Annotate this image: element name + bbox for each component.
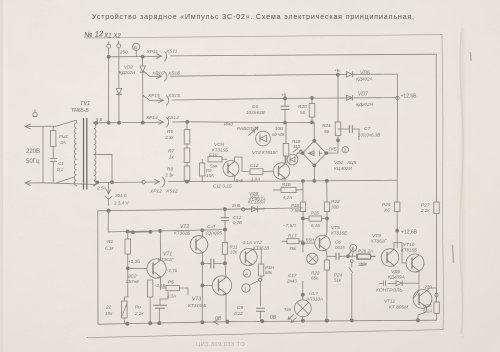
resistor R9 <box>200 159 205 182</box>
svg-text:ЦИ3.369.033 ТО: ЦИ3.369.033 ТО <box>196 342 245 348</box>
wire x260 node down to C9 <box>259 281 261 306</box>
wire x352 from circled Б <box>352 251 353 257</box>
label R3 <box>155 283 166 288</box>
capacitor C3 <box>202 259 225 268</box>
svg-text:0,7Б: 0,7Б <box>233 220 242 225</box>
label C9 0,22 <box>234 305 243 316</box>
resistor R11 <box>222 230 227 264</box>
wire primary top <box>75 120 77 122</box>
wire C4 top hook <box>160 292 168 299</box>
transistor VT3 <box>240 248 257 265</box>
svg-text:68к: 68к <box>265 270 273 275</box>
base wire VT1 <box>128 267 147 269</box>
capacitor C6 <box>281 98 289 122</box>
svg-text:(Q(н)05: (Q(н)05 <box>206 231 222 236</box>
label 0В left <box>215 316 222 322</box>
circled node Б <box>133 43 140 51</box>
label VD6 КД402А <box>356 71 373 82</box>
svg-text:55Н: 55Н <box>306 238 314 243</box>
rail2 wire to node +Б <box>171 74 338 76</box>
rail4 wire <box>173 121 313 124</box>
label R8 3,3к <box>165 167 174 178</box>
capacitor C9 <box>257 308 265 321</box>
svg-text:0015: 0015 <box>335 245 345 250</box>
svg-text:С12: С12 <box>250 163 259 168</box>
label -2,7В <box>167 268 178 273</box>
label C17 <box>286 273 297 284</box>
svg-text:Ри: Ри <box>135 305 141 311</box>
label XP16 XS16 <box>151 71 180 77</box>
connector mark at VD8 left <box>379 281 386 286</box>
junction dot R2 top <box>126 267 129 270</box>
svg-text:-2,1Б: -2,1Б <box>155 283 166 288</box>
svg-text:ХS14: ХS14 <box>166 115 179 121</box>
label 250 <box>120 50 128 55</box>
label VD5 КЦ405А <box>334 160 357 172</box>
resistor R8 <box>184 163 190 182</box>
svg-text:КТ815Г: КТ815Г <box>262 150 278 155</box>
svg-text:Р26: Р26 <box>311 211 319 216</box>
svg-text:VТ11: VТ11 <box>384 299 395 305</box>
label R24b <box>334 273 343 283</box>
svg-text:С.Л: С.Л <box>207 224 216 230</box>
svg-text:С1: С1 <box>58 161 64 166</box>
svg-text:2,2к: 2,2к <box>420 208 430 213</box>
label C1 <box>57 161 64 172</box>
connector pair XP15/XS15 arrow <box>143 95 169 105</box>
svg-text:С11 0,1Б: С11 0,1Б <box>213 184 232 189</box>
switch SA1 upper contact <box>56 121 75 127</box>
svg-text:3,3к: 3,3к <box>165 135 174 140</box>
label VD8 КД409А <box>388 269 405 280</box>
svg-text:15к: 15к <box>105 311 113 316</box>
resistor R3 <box>148 280 153 323</box>
junction dots C3 row <box>201 262 227 265</box>
label C7 100,0х6,3В <box>358 126 380 138</box>
resistor R14 <box>259 258 264 280</box>
svg-text:R17: R17 <box>288 234 297 239</box>
label 234V <box>114 201 129 206</box>
resistor R24 <box>324 256 329 270</box>
wire VD6 corner down to +12.6 node <box>396 74 398 98</box>
label 204В <box>115 193 127 198</box>
svg-text:КТ361Г: КТ361Г <box>371 239 387 244</box>
svg-text:1,0А: 1,0А <box>251 177 260 182</box>
svg-text:250: 250 <box>120 50 128 55</box>
svg-text:5,2А: 5,2А <box>423 309 432 314</box>
crease dark dash upper <box>470 52 473 61</box>
svg-text:КД409А: КД409А <box>388 275 405 280</box>
label +2,3В <box>128 259 140 264</box>
resistor R23 horizontal <box>348 254 376 259</box>
wire mains bottom to transformer <box>43 183 94 185</box>
label R19 110 <box>292 139 301 149</box>
junction dot R8 bottom on mid bus <box>186 180 189 183</box>
svg-text:Инд.: Инд. <box>224 122 234 128</box>
label VT3 КТ361В <box>241 240 269 251</box>
wire x144 vertical to VD2 and down <box>142 57 144 123</box>
svg-text:VD7: VD7 <box>358 92 368 98</box>
wire X2 down to diode VD1 <box>118 48 120 88</box>
label R23 33к <box>358 249 373 267</box>
junction dot X1 node <box>107 55 110 58</box>
label 0В right <box>270 315 277 321</box>
connector pair XP16/XS16 arrow <box>143 71 167 81</box>
label XP15 XS15 <box>147 93 180 99</box>
svg-text:ХS12: ХS12 <box>165 189 178 195</box>
connector switch mark x352 <box>349 260 353 321</box>
transformer core <box>84 119 87 190</box>
wire VT3 emitter to R14 <box>252 249 261 258</box>
transistor VT7 <box>381 249 399 267</box>
mains arrow upper prong <box>25 124 56 129</box>
svg-text:+12,6В: +12,6В <box>401 230 418 236</box>
label +8В <box>281 93 287 98</box>
label R10 value <box>210 164 218 169</box>
wire secondary bottom to XP12 row <box>94 182 143 185</box>
label C2 <box>125 274 139 285</box>
small box row above VT1 <box>126 230 152 233</box>
label Инд. РАБОТА <box>224 122 256 133</box>
transformer primary winding <box>74 121 76 186</box>
bottom bus wire <box>98 320 437 324</box>
label VT2 <box>174 224 190 236</box>
wire VT5 collector x327 down <box>303 219 327 237</box>
junction dot secondary bottom <box>96 181 99 184</box>
label VT6 КТ817 <box>252 150 278 156</box>
svg-text:ХР15: ХР15 <box>147 93 160 99</box>
bridge rectifier VD5 diamond <box>303 141 327 166</box>
label VT5 КТ315Е <box>331 225 348 236</box>
resistor R21 <box>335 75 341 141</box>
node dot +Б <box>336 73 339 76</box>
svg-text:6,4Б: 6,4Б <box>311 223 320 228</box>
label R16 <box>291 203 300 213</box>
svg-text:0,1: 0,1 <box>57 167 64 172</box>
zener diode VD3 on y209 wire <box>245 207 264 212</box>
junction dots on y123 line <box>95 121 145 124</box>
resistor R25 <box>395 202 400 212</box>
svg-text:+Б: +Б <box>334 68 340 73</box>
wire VT10 emitter down to VT11 base <box>410 271 419 299</box>
sheet frame bottom (faint) <box>87 330 443 338</box>
label +5,6В <box>236 178 244 183</box>
resistor R7 <box>184 144 190 163</box>
capacitor C10 label <box>209 152 218 157</box>
inner block top wire y210 <box>98 208 303 211</box>
label +12,6В lower <box>401 230 418 236</box>
svg-text:VD2: VD2 <box>124 65 133 70</box>
svg-text:6,8: 6,8 <box>96 117 103 122</box>
svg-text:0,22: 0,22 <box>234 311 243 316</box>
wire bridge top up <box>313 122 315 140</box>
circled 4 test point <box>243 270 251 278</box>
base wire VT3b <box>202 263 212 322</box>
LED HL2 arrows <box>294 148 303 154</box>
mid bus wire y182 to right <box>169 180 398 181</box>
label R27 2,2к <box>420 203 430 214</box>
label C11 0,15 <box>213 184 232 189</box>
label +7,5В <box>282 223 296 229</box>
circled 2 test point <box>342 147 348 153</box>
label XP11 XS11 <box>146 49 178 56</box>
label КИПД24 <box>272 132 286 137</box>
terminal X2 <box>117 41 121 48</box>
transformer secondary winding <box>94 122 96 186</box>
label КОНТРОЛЬ <box>376 288 403 294</box>
junction dot VT5 base <box>302 242 305 245</box>
wire bridge left to HL2 <box>297 152 303 154</box>
chassis Y symbol <box>105 196 112 206</box>
label FU1 3А <box>59 134 68 146</box>
svg-text:3А: 3А <box>60 140 66 146</box>
wire x397 down from +12,6 node <box>396 98 398 248</box>
test lamp circle waveform point <box>307 253 318 264</box>
svg-text:Н29: Н29 <box>423 303 432 308</box>
wire X1 down to node <box>108 48 110 123</box>
wire bridge bottom to mid bus <box>313 165 315 181</box>
svg-text:72н: 72н <box>284 307 292 312</box>
resistor R6 <box>184 122 190 144</box>
LED HL1 arrows <box>249 127 259 136</box>
diode VD1 <box>116 89 121 95</box>
svg-text:-220: -220 <box>423 285 432 290</box>
svg-text:ХР12: ХР12 <box>149 189 162 195</box>
component R10 box <box>208 157 227 162</box>
junction dot R20 top on rail3 <box>311 96 314 99</box>
LED HL3 arrows <box>288 315 296 323</box>
svg-text:–7,5Л: –7,5Л <box>282 223 296 229</box>
svg-text:VD2 . КЦ5: VD2 . КЦ5 <box>334 160 357 166</box>
END-LEFT <box>165 75 380 184</box>
resistor R27 <box>434 202 439 214</box>
capacitor C13 on x225 <box>222 209 229 229</box>
label XP12 XS12 <box>149 189 178 195</box>
junction dot x397 at +12,6В branch <box>396 229 399 232</box>
svg-text:Р28 2А: Р28 2А <box>358 249 373 254</box>
svg-text:10,0г63В: 10,0г63В <box>246 110 265 115</box>
svg-text:ХS15: ХS15 <box>167 93 180 99</box>
label HL3 АЛ310А <box>305 291 323 302</box>
svg-text:Р5: Р5 <box>168 280 174 285</box>
base wire VT5 <box>303 236 315 252</box>
label +Б <box>334 68 340 73</box>
label VT3 КТ315Б <box>188 297 206 310</box>
label VD2 КД202Н <box>119 65 136 76</box>
wire secondary top to connector row <box>94 121 146 124</box>
resistor R20 <box>309 98 315 123</box>
svg-text:VТ3: VТ3 <box>192 297 201 303</box>
wire VT7 collector to VT8 base <box>394 243 406 264</box>
junction dot +8 node <box>284 97 287 100</box>
svg-text:ТV1: ТV1 <box>80 101 90 107</box>
END-MID2 <box>108 194 343 322</box>
svg-text:5ч6: 5ч6 <box>236 178 244 183</box>
right rail wire vertical <box>435 54 437 320</box>
fuse FU1 <box>51 126 56 152</box>
transistor VT1 <box>147 231 166 290</box>
VT11 emitter node open circle on rail <box>427 288 439 302</box>
END-MID1 <box>200 98 440 272</box>
label C13 <box>233 215 242 225</box>
wire x327 vertical <box>326 181 328 219</box>
label C5 0,05 <box>206 224 222 236</box>
node dot +10В <box>337 139 340 142</box>
junction dots y230 <box>126 228 227 233</box>
diode VD2 <box>140 66 145 72</box>
label R25 56 <box>382 202 391 213</box>
svg-text:КД202Н: КД202Н <box>119 70 136 75</box>
terminal X1 <box>107 42 111 49</box>
svg-text:С17: С17 <box>288 273 297 278</box>
label R7 1к <box>168 149 175 160</box>
svg-text:3,3к: 3,3к <box>165 173 174 178</box>
svg-text:2,5А: 2,5А <box>96 186 106 191</box>
switch SA1 lower contact <box>56 177 75 183</box>
transistor VT3b mid <box>212 263 231 321</box>
wire VT4 collector to C12 <box>235 157 251 171</box>
component C12 box <box>250 169 273 175</box>
label 2,5А <box>96 186 106 191</box>
label R26 <box>311 211 320 229</box>
diode VD7 <box>347 95 353 100</box>
svg-text:КЦ402И: КЦ402И <box>334 166 352 172</box>
svg-text:ХР16: ХР16 <box>151 71 164 77</box>
inner block left wire x98 <box>97 211 99 324</box>
label R15 <box>282 182 292 200</box>
svg-text:7,5Б: 7,5Б <box>291 208 300 213</box>
label 10В <box>275 126 283 131</box>
junction dots mid bus <box>301 179 328 182</box>
junction dot VT3b base <box>201 284 204 287</box>
connector pair XP11/XS11 arrow <box>144 52 167 62</box>
svg-text:51к: 51к <box>334 278 342 283</box>
junction dot y210 at x225 <box>224 208 227 211</box>
mid wire y230 <box>108 230 225 232</box>
label VD3 КС156А <box>248 194 265 205</box>
earth symbol <box>33 110 37 117</box>
svg-text:10В: 10В <box>275 126 283 131</box>
secondary mid tap <box>94 154 112 182</box>
capacitor C1 <box>50 152 57 170</box>
svg-text:+12,6В: +12,6В <box>401 94 418 100</box>
wire x327 column down <box>326 219 328 321</box>
page crease line <box>460 32 464 334</box>
label R5 3,3к <box>167 280 176 299</box>
svg-text:22: 22 <box>105 305 112 311</box>
wire VT6 top/bottom <box>284 156 286 181</box>
svg-text:С6: С6 <box>335 240 341 245</box>
antenna drop arrow <box>106 182 110 194</box>
transistor VT8 <box>406 254 424 272</box>
wire bridge top to R20/R21 rail <box>312 122 338 153</box>
capacitor C8 <box>327 253 348 260</box>
svg-text:КС1Б6А: КС1Б6А <box>248 200 265 205</box>
svg-text:2Н5: 2Н5 <box>232 203 241 208</box>
junction dot at x144 top <box>141 55 144 58</box>
label R22 300 <box>331 199 340 210</box>
label R9 15к <box>206 168 214 178</box>
label X1 X2 <box>103 33 121 40</box>
resistor R15 horizontal <box>273 187 303 192</box>
wire node to connector XP11 <box>109 56 144 58</box>
connector pair XP14/XS14 arrow <box>146 118 169 128</box>
resistor R2 trimmer <box>122 268 128 324</box>
right column lower: VD8 diode <box>388 281 410 286</box>
resistor R26 horizontal <box>303 216 327 221</box>
transistor VT5 <box>315 232 331 256</box>
LED HL2 <box>287 154 298 165</box>
transistor VT11 <box>413 290 432 309</box>
svg-text:-3,1А VТ2: -3,1А VТ2 <box>241 240 262 245</box>
svg-text:50Гц: 50Гц <box>26 159 40 165</box>
label VT1 КТ361Г <box>158 252 174 263</box>
label R2 15к <box>105 305 113 317</box>
svg-text:КТ315Е: КТ315Е <box>331 231 348 236</box>
label VT11 КТ805БМ <box>384 299 408 311</box>
svg-text:–(VБ: –(VБ <box>325 147 337 153</box>
svg-text:R1Б: R1Б <box>282 182 291 187</box>
svg-text:-2,7б: -2,7б <box>167 268 178 273</box>
label C8 0,015 <box>335 240 345 251</box>
resistor R29 <box>434 302 439 314</box>
svg-text:ХS11: ХS11 <box>165 49 178 55</box>
bottom bus junction dots <box>126 319 420 326</box>
label R29 5,2к <box>423 303 432 314</box>
left block resistor R1 <box>125 232 131 268</box>
svg-text:1: 1 <box>244 286 247 291</box>
label R28 33к <box>358 262 366 267</box>
svg-text:0В: 0В <box>270 315 277 321</box>
label R6 3,3к <box>165 129 174 140</box>
label C12 <box>250 163 260 182</box>
svg-text:2,2к: 2,2к <box>134 311 144 316</box>
svg-text:Х1 Х2: Х1 Х2 <box>103 33 121 40</box>
svg-text:КОНТРОЛЬ: КОНТРОЛЬ <box>376 288 403 294</box>
svg-text:300: 300 <box>331 205 339 210</box>
svg-text:АЛ310А: АЛ310А <box>305 297 323 302</box>
wire VT11 collector down to bus <box>418 307 427 320</box>
label 6,3В secondary <box>96 117 103 122</box>
svg-text:56: 56 <box>300 110 306 115</box>
LED HL1 <box>256 131 271 146</box>
svg-text:4,2А: 4,2А <box>283 195 292 200</box>
open circle node on y209 <box>242 208 245 211</box>
transistor VT2 <box>190 230 208 263</box>
svg-text:0В: 0В <box>215 316 222 322</box>
connector XP12 open circle <box>142 180 145 183</box>
open node circle x260 <box>259 278 262 281</box>
svg-text:10к: 10к <box>230 250 238 255</box>
grounded capacitor C4 <box>154 299 167 323</box>
svg-text:R1: R1 <box>107 239 113 245</box>
junction dot inner top at antenna <box>107 209 110 212</box>
END-RAILS <box>25 101 437 325</box>
label +12,6В <box>401 94 418 100</box>
svg-text:КТ 805М: КТ 805М <box>389 305 408 311</box>
label VT10 КТ815 <box>401 242 417 253</box>
svg-text:ХР14: ХР14 <box>145 115 158 121</box>
node +12,6В open circle <box>396 96 399 99</box>
label R21 56 <box>322 123 331 134</box>
label VD7 КД202Н <box>356 92 374 108</box>
svg-text:2С2: 2С2 <box>127 274 137 279</box>
junction dots R26 row <box>302 217 329 220</box>
transformer TV1 label <box>71 101 90 114</box>
label VD9 КС407А <box>249 191 266 202</box>
svg-text:2Б7н8: 2Б7н8 <box>125 279 139 284</box>
svg-text:2н43: 2н43 <box>286 279 297 284</box>
